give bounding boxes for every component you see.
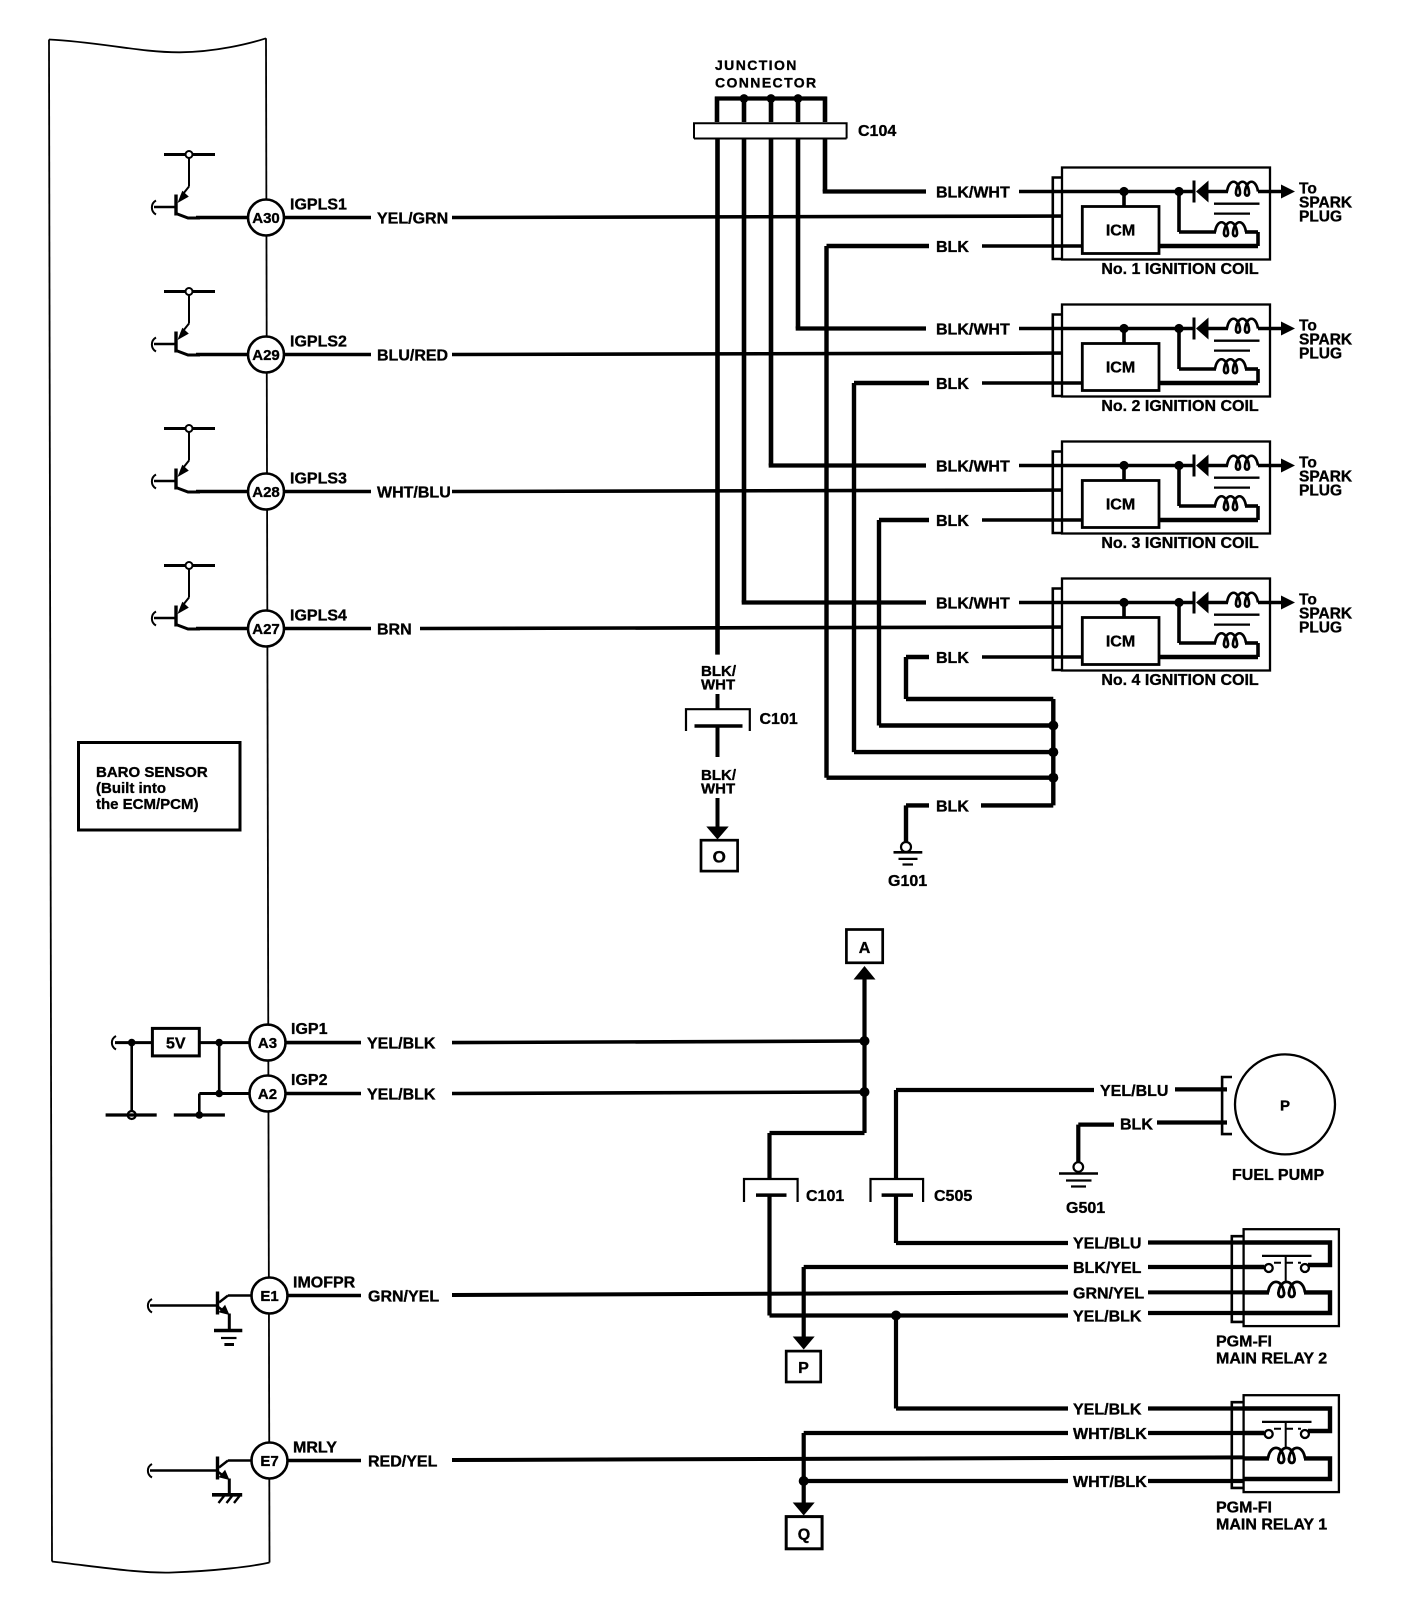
wire BLK No.3 coil to ground bus <box>879 520 1053 726</box>
svg-text:FUEL PUMP: FUEL PUMP <box>1232 1167 1324 1184</box>
wire YEL/BLU below C505 to relay 2 <box>896 1194 1068 1243</box>
svg-text:A3: A3 <box>258 1035 277 1052</box>
svg-text:C101: C101 <box>806 1188 844 1205</box>
connector C101 (engine harness) <box>686 709 750 731</box>
svg-text:YEL/BLU: YEL/BLU <box>1100 1083 1168 1100</box>
diode D2 (in No.2 coil) <box>1194 318 1209 340</box>
wire GRN/YEL E1 to relay 2 <box>452 1293 1068 1295</box>
relay 2 contact feed wire (pin 1) <box>1244 1243 1330 1266</box>
wire WHT/BLK to page reference Q <box>802 1481 806 1504</box>
svg-text:A29: A29 <box>252 347 280 364</box>
wire BLK right segment into ICM (No.4 coil) <box>982 655 1082 659</box>
No. 4 ignition coil case <box>1062 579 1270 671</box>
svg-text:WHT/BLK: WHT/BLK <box>1073 1474 1147 1491</box>
pin A27 <box>248 611 284 647</box>
wire BLU/RED (A29 to No.2 ignition coil), right segment <box>452 353 1082 355</box>
label FUEL PUMP <box>1232 1167 1324 1184</box>
label WHT/BLK (relay 1 pin 2) <box>1073 1426 1147 1443</box>
label BLK/WHT (No.1 coil feed) <box>936 185 1010 202</box>
wire G501 down lead <box>1076 1125 1080 1163</box>
junction bus junction dots <box>740 94 803 103</box>
svg-text:A30: A30 <box>252 210 280 227</box>
wire BLK/WHT vertical 3 (C104 to No.3 coil) <box>769 139 926 466</box>
wire YEL/BLU fuel pump feed from C505 node <box>896 1090 1094 1180</box>
svg-text:C101: C101 <box>760 711 798 728</box>
label GRN/YEL (at E1) <box>368 1289 439 1306</box>
wire A30 transistor to pin <box>196 216 249 220</box>
arrow into Q <box>793 1503 815 1516</box>
wire GRN/YEL left segment <box>288 1294 362 1298</box>
transistor Q4 (IGPLS4 driver) <box>152 562 215 629</box>
pin A29 <box>248 337 284 373</box>
transistor Q1 (IGPLS1 driver) <box>152 151 215 218</box>
wire YEL/BLU into relay 2 pin 1 <box>1148 1240 1244 1244</box>
svg-text:YEL/BLK: YEL/BLK <box>1073 1309 1142 1326</box>
relay 2 coil <box>1244 1282 1305 1297</box>
relay 1 coil <box>1244 1448 1305 1463</box>
wire BLK right segment into ICM (No.2 coil) <box>982 381 1082 385</box>
svg-text:GRN/YEL: GRN/YEL <box>1073 1286 1144 1303</box>
label C101 (lower) <box>806 1188 844 1205</box>
svg-text:BLK: BLK <box>1120 1117 1153 1134</box>
label IGP2 <box>291 1072 328 1089</box>
page reference A box <box>846 930 882 963</box>
page reference P box <box>786 1351 821 1382</box>
primary winding L1 (No.1 coil) <box>1227 182 1258 196</box>
transistor Q2 (IGPLS2 driver) <box>152 288 215 355</box>
wire BLK/WHT into C101 <box>716 694 720 710</box>
svg-text:IMOFPR: IMOFPR <box>293 1275 356 1292</box>
svg-text:RED/YEL: RED/YEL <box>368 1454 438 1471</box>
junction dot YEL/BLK branch <box>891 1311 901 1321</box>
svg-text:No. 4 IGNITION COIL: No. 4 IGNITION COIL <box>1101 672 1259 689</box>
primary winding L1 (No.4 coil) <box>1227 593 1258 607</box>
label MRLY <box>293 1440 337 1457</box>
svg-text:G501: G501 <box>1066 1200 1105 1217</box>
label BLK/WHT (above C101) <box>701 663 737 694</box>
label To SPARK PLUG (No.1) <box>1299 181 1353 226</box>
transformer core (No.3 coil) <box>1214 478 1260 488</box>
svg-text:No. 1 IGNITION COIL: No. 1 IGNITION COIL <box>1101 261 1259 278</box>
svg-text:WHT: WHT <box>701 677 735 694</box>
svg-text:BLK: BLK <box>936 650 969 667</box>
diode D1 (in No.1 coil) <box>1194 181 1209 203</box>
wire A28 transistor to pin <box>196 490 249 494</box>
svg-text:BARO SENSOR: BARO SENSOR <box>96 764 208 781</box>
wire diode to primary winding (No.3 coil) <box>1207 464 1228 468</box>
label BLK (to G101) <box>936 799 969 816</box>
connector C104 body <box>694 123 847 138</box>
label JUNCTION CONNECTOR <box>715 57 818 91</box>
pin E1 <box>252 1278 288 1314</box>
svg-text:BRN: BRN <box>377 622 412 639</box>
diode D3 (in No.3 coil) <box>1194 455 1209 477</box>
svg-text:Q: Q <box>798 1527 810 1544</box>
wire BLK/YEL into relay 2 pin 2 <box>1148 1265 1244 1269</box>
svg-text:IGPLS2: IGPLS2 <box>290 334 347 351</box>
arrow into A <box>854 966 876 980</box>
No. 3 ignition coil case <box>1062 442 1270 534</box>
pin A28 <box>248 474 284 510</box>
svg-text:PLUG: PLUG <box>1299 483 1342 500</box>
svg-text:YEL/GRN: YEL/GRN <box>377 211 448 228</box>
wire BLK/WHT below C101 <box>716 726 720 757</box>
label To SPARK PLUG (No.3) <box>1299 455 1353 500</box>
wire BLK No.4 coil to ground bus <box>906 657 1053 699</box>
wire YEL/BLK branch to relay 1 <box>896 1316 1068 1409</box>
label No. 1 IGNITION COIL <box>1101 261 1259 278</box>
svg-text:PGM-FI: PGM-FI <box>1216 1500 1272 1517</box>
relay 2 coil return (pin 4) <box>1244 1292 1330 1313</box>
arrow to spark plug (No.4 coil) <box>1281 596 1295 610</box>
No. 2 ignition coil connector bracket <box>1053 315 1062 397</box>
wire YEL/GRN (A30 to No.1 ignition coil), left segment <box>284 216 371 220</box>
svg-text:P: P <box>1280 1098 1290 1115</box>
wire BLK ground bus to G101, left segment <box>906 805 929 842</box>
label To SPARK PLUG (No.4) <box>1299 592 1353 637</box>
wire WHT/BLU (A28 to No.3 ignition coil), left segment <box>284 490 371 494</box>
svg-text:YEL/BLK: YEL/BLK <box>1073 1402 1142 1419</box>
PGM-FI main relay 2 case <box>1244 1229 1339 1326</box>
wire BLK/WHT vertical 1 (C104 to C101) <box>715 139 720 655</box>
svg-text:BLK: BLK <box>936 513 969 530</box>
ground (E7 transistor emitter, chassis) <box>212 1495 242 1503</box>
label YEL/BLK (IGP1) <box>367 1036 436 1053</box>
wire BLK/WHT into No.1 coil with junction dots <box>1019 187 1194 196</box>
wire YEL/BLK below C101 to relay 2 <box>770 1194 1069 1316</box>
label PGM-FI MAIN RELAY 2 <box>1216 1334 1327 1368</box>
wire GRN/YEL into relay 2 pin 3 <box>1148 1290 1244 1294</box>
label GRN/YEL (relay 2) <box>1073 1286 1144 1303</box>
relay 1 contact feed wire (pin 1) <box>1244 1409 1330 1432</box>
label IGPLS1 <box>290 197 347 214</box>
regulator 5V box <box>152 1028 199 1056</box>
label BLK (No.2 coil ground wire) <box>936 376 969 393</box>
label WHT/BLK (relay 1 pin 4) <box>1073 1474 1147 1491</box>
PGM-FI main relay 2 connector bracket <box>1232 1236 1244 1322</box>
wire BLK No.1 coil to ground bus <box>827 246 1054 778</box>
wire secondary return to ICM (No.3 coil) <box>1159 518 1258 523</box>
label G101 <box>888 873 927 890</box>
wire YEL/GRN (A30 to No.1 ignition coil), right segment <box>452 216 1082 218</box>
wire BLK/WHT vertical 5 (C104 to No.1 coil) <box>823 139 926 192</box>
label IMOFPR <box>293 1275 356 1292</box>
wire BRN (A27 to No.4 ignition coil), right segment <box>420 627 1082 629</box>
svg-text:P: P <box>798 1360 809 1377</box>
wire BLU/RED (A29 to No.2 ignition coil), left segment <box>284 353 371 357</box>
svg-text:O: O <box>713 848 726 867</box>
wire secondary return to ICM (No.2 coil) <box>1159 381 1258 386</box>
label No. 3 IGNITION COIL <box>1101 535 1259 552</box>
wire YEL/BLU into fuel pump connector <box>1175 1087 1227 1091</box>
svg-text:IGPLS3: IGPLS3 <box>290 471 347 488</box>
wire IGP feed to C101 <box>770 1133 865 1180</box>
wire secondary return to ICM (No.1 coil) <box>1159 244 1258 249</box>
label No. 2 IGNITION COIL <box>1101 398 1259 415</box>
connector C101 (lower, main harness) <box>744 1179 798 1202</box>
terminal open circle <box>128 1111 136 1119</box>
fuel pump motor P <box>1235 1054 1335 1154</box>
wire branch down to stub <box>130 1043 133 1112</box>
label WHT/BLU <box>377 485 451 502</box>
wire IGP feed vertical to A <box>862 978 866 1133</box>
svg-text:E1: E1 <box>260 1288 278 1305</box>
ICM U1 (igniter, No.1 coil) <box>1082 207 1159 254</box>
relay 1 pin 2 wire <box>1244 1431 1265 1435</box>
wire YEL/BLK IGP2 right segment <box>452 1092 865 1094</box>
wire BLK/WHT into No.3 coil with junction dots <box>1019 461 1194 470</box>
junction dot on 5V input <box>128 1039 136 1047</box>
svg-text:IGP1: IGP1 <box>291 1021 328 1038</box>
label YEL/BLU (relay 2) <box>1073 1236 1141 1253</box>
svg-text:MRLY: MRLY <box>293 1440 337 1457</box>
wire ICM power (top wire to ICM, No.4 coil) <box>1122 603 1126 618</box>
BARO sensor box (built into ECM/PCM) <box>79 743 241 831</box>
pin E7 <box>252 1443 288 1479</box>
svg-text:IGPLS1: IGPLS1 <box>290 197 347 214</box>
svg-text:JUNCTION: JUNCTION <box>715 57 798 73</box>
junction dot IGP1 at feed <box>860 1036 870 1046</box>
wire YEL/BLK IGP2 left segment <box>286 1092 362 1096</box>
junction connector pin stubs <box>717 97 825 123</box>
transformer core (No.4 coil) <box>1214 615 1260 625</box>
wire 5V box to pin A3 <box>199 1041 250 1044</box>
arrow into P <box>793 1337 815 1350</box>
wire RED/YEL left segment <box>288 1459 362 1463</box>
arrow into O <box>706 827 728 840</box>
label G501 <box>1066 1200 1105 1217</box>
label BLK (No.4 coil ground wire) <box>936 650 969 667</box>
label YEL/GRN <box>377 211 448 228</box>
svg-text:BLK/YEL: BLK/YEL <box>1073 1260 1142 1277</box>
svg-text:C505: C505 <box>934 1188 972 1205</box>
primary winding L1 (No.2 coil) <box>1227 319 1258 333</box>
label BLK/WHT (No.2 coil feed) <box>936 322 1010 339</box>
label YEL/BLK (relay 1) <box>1073 1402 1142 1419</box>
wire 5V supply input with torn end <box>112 1036 153 1050</box>
svg-text:G101: G101 <box>888 873 927 890</box>
label YEL/BLK (relay 2 coil) <box>1073 1309 1142 1326</box>
label To SPARK PLUG (No.2) <box>1299 318 1353 363</box>
wire BLK/WHT to page reference O <box>716 798 720 828</box>
diode D4 (in No.4 coil) <box>1194 592 1209 614</box>
svg-text:BLK: BLK <box>936 239 969 256</box>
No. 3 ignition coil connector bracket <box>1053 452 1062 534</box>
secondary winding L2 (No.3 coil) <box>1179 466 1258 521</box>
svg-text:WHT: WHT <box>701 781 735 798</box>
svg-text:MAIN RELAY 1: MAIN RELAY 1 <box>1216 1517 1327 1534</box>
wire diode to primary winding (No.4 coil) <box>1207 601 1228 605</box>
wire BLK/WHT into No.2 coil with junction dots <box>1019 324 1194 333</box>
wire BLK ground bus to G101, right segment <box>981 803 1053 807</box>
svg-text:PLUG: PLUG <box>1299 620 1342 637</box>
secondary winding L2 (No.4 coil) <box>1179 603 1258 658</box>
secondary winding L2 (No.2 coil) <box>1179 329 1258 384</box>
wire YEL/BLK into relay 1 pin 1 <box>1148 1406 1246 1410</box>
wire primary to spark-plug terminal (No.4 coil) <box>1258 601 1282 605</box>
label IGP1 <box>291 1021 328 1038</box>
wire A29 transistor to pin <box>196 353 249 357</box>
wire BLK/WHT vertical 4 (C104 to No.2 coil) <box>796 139 926 329</box>
ICM U4 (igniter, No.4 coil) <box>1082 618 1159 665</box>
ECM/PCM module outline (torn strip) <box>49 38 270 1572</box>
label No. 4 IGNITION COIL <box>1101 672 1259 689</box>
wire BLK/YEL relay 2 pin 2 to page reference P <box>804 1267 1068 1337</box>
wire ICM power (top wire to ICM, No.3 coil) <box>1122 466 1126 481</box>
wire YEL/BLK into relay 2 pin 4 <box>1148 1311 1244 1315</box>
wire BLK right segment into ICM (No.3 coil) <box>982 518 1082 522</box>
wire ICM power (top wire to ICM, No.1 coil) <box>1122 192 1126 207</box>
ground (E1 transistor emitter) <box>214 1331 242 1345</box>
wire BLK/WHT vertical 2 (C104 to No.4 coil) <box>742 139 926 603</box>
transistor Q3 (IGPLS3 driver) <box>152 425 215 492</box>
junction connector bus bar <box>715 96 827 100</box>
svg-text:WHT/BLU: WHT/BLU <box>377 485 451 502</box>
label BLK (No.1 coil ground wire) <box>936 239 969 256</box>
svg-text:BLK: BLK <box>936 376 969 393</box>
ground G501 <box>1059 1162 1098 1186</box>
label IGPLS4 <box>290 608 347 625</box>
svg-text:C104: C104 <box>858 123 896 140</box>
pin A30 <box>248 200 284 236</box>
svg-text:PGM-FI: PGM-FI <box>1216 1334 1272 1351</box>
secondary winding L2 (No.1 coil) <box>1179 192 1258 247</box>
junction dot WHT/BLK <box>799 1476 809 1486</box>
svg-text:IGPLS4: IGPLS4 <box>290 608 347 625</box>
svg-text:BLK/WHT: BLK/WHT <box>936 322 1010 339</box>
wire corner to A2 <box>199 1094 250 1116</box>
wire diode to primary winding (No.1 coil) <box>1207 190 1228 194</box>
wire RED/YEL E7 to relay 1 <box>452 1457 1246 1460</box>
ICM U3 (igniter, No.3 coil) <box>1082 481 1159 528</box>
svg-text:E7: E7 <box>260 1453 278 1470</box>
svg-text:(Built into: (Built into <box>96 780 166 797</box>
svg-text:No. 2 IGNITION COIL: No. 2 IGNITION COIL <box>1101 398 1259 415</box>
stub wire right <box>174 1113 225 1116</box>
svg-text:ICM: ICM <box>1106 360 1135 377</box>
wire YEL/BLK IGP1 right segment <box>452 1041 865 1043</box>
No. 1 ignition coil connector bracket <box>1053 178 1062 260</box>
arrow to spark plug (No.3 coil) <box>1281 459 1295 473</box>
svg-text:ICM: ICM <box>1106 497 1135 514</box>
arrow to spark plug (No.2 coil) <box>1281 322 1295 336</box>
relay 2 pin 2 wire <box>1244 1265 1265 1269</box>
wire WHT/BLU (A28 to No.3 ignition coil), right segment <box>452 490 1082 492</box>
svg-text:WHT/BLK: WHT/BLK <box>1073 1426 1147 1443</box>
wire BLK into fuel pump connector <box>1157 1120 1227 1124</box>
svg-text:ICM: ICM <box>1106 634 1135 651</box>
svg-text:the ECM/PCM): the ECM/PCM) <box>96 796 199 813</box>
wire BLK No.2 coil to ground bus <box>854 383 1053 752</box>
primary winding L1 (No.3 coil) <box>1227 456 1258 470</box>
wire primary to spark-plug terminal (No.1 coil) <box>1258 190 1282 194</box>
svg-text:MAIN RELAY 2: MAIN RELAY 2 <box>1216 1351 1327 1368</box>
label BLK/WHT (No.4 coil feed) <box>936 596 1010 613</box>
wire WHT/BLK into relay 1 pin 2 <box>1148 1431 1246 1435</box>
wire primary to spark-plug terminal (No.2 coil) <box>1258 327 1282 331</box>
svg-text:PLUG: PLUG <box>1299 346 1342 363</box>
ground G101 <box>894 842 923 865</box>
relay 1 contact (switch) <box>1262 1422 1312 1449</box>
No. 2 ignition coil case <box>1062 305 1270 397</box>
label PGM-FI MAIN RELAY 1 <box>1216 1500 1327 1534</box>
page reference O box <box>701 840 738 871</box>
label YEL/BLK (IGP2) <box>367 1087 436 1104</box>
label BRN <box>377 622 412 639</box>
PGM-FI main relay 1 case <box>1244 1395 1339 1492</box>
label IGPLS2 <box>290 334 347 351</box>
fuel pump connector bracket <box>1222 1077 1232 1134</box>
pin A2 <box>250 1076 286 1112</box>
label IGPLS3 <box>290 471 347 488</box>
arrow to spark plug (No.1 coil) <box>1281 185 1295 199</box>
wire WHT/BLK relay 1 pin 4 <box>804 1479 1068 1483</box>
wire WHT/BLK relay 1 pin 2 <box>804 1433 1068 1481</box>
junction dot A3 feed <box>215 1039 223 1047</box>
wire branch A3 to A2 <box>218 1043 221 1094</box>
label BLK (No.3 coil ground wire) <box>936 513 969 530</box>
transformer core (No.1 coil) <box>1214 204 1260 214</box>
No. 1 ignition coil case <box>1062 168 1270 260</box>
transformer core (No.2 coil) <box>1214 341 1260 351</box>
label BLK (fuel pump ground) <box>1120 1117 1153 1134</box>
label BLK/WHT (below C101) <box>701 767 737 798</box>
page reference Q box <box>786 1517 822 1549</box>
wire YEL/BLK IGP1 left segment <box>286 1041 362 1045</box>
wire secondary return to ICM (No.4 coil) <box>1159 655 1258 660</box>
PGM-FI main relay 1 connector bracket <box>1232 1402 1244 1488</box>
svg-text:YEL/BLK: YEL/BLK <box>367 1087 436 1104</box>
wire WHT/BLK into relay 1 pin 4 <box>1148 1479 1246 1483</box>
svg-text:A27: A27 <box>252 621 280 638</box>
connector C505 <box>871 1179 924 1202</box>
label BLK/YEL <box>1073 1260 1142 1277</box>
svg-text:PLUG: PLUG <box>1299 209 1342 226</box>
svg-text:BLU/RED: BLU/RED <box>377 348 448 365</box>
junction dot IGP2 at feed <box>860 1087 870 1097</box>
label BLK/WHT (No.3 coil feed) <box>936 459 1010 476</box>
svg-text:ICM: ICM <box>1106 223 1135 240</box>
label BLU/RED <box>377 348 448 365</box>
relay 1 coil return (pin 4) <box>1244 1458 1330 1479</box>
label C101 <box>760 711 798 728</box>
junction dot on A2 wire <box>215 1090 223 1098</box>
wire primary to spark-plug terminal (No.3 coil) <box>1258 464 1282 468</box>
svg-text:A: A <box>859 940 871 957</box>
wire ICM power (top wire to ICM, No.2 coil) <box>1122 329 1126 344</box>
svg-text:IGP2: IGP2 <box>291 1072 328 1089</box>
svg-text:BLK/WHT: BLK/WHT <box>936 185 1010 202</box>
svg-text:A28: A28 <box>252 484 280 501</box>
pin A3 <box>250 1025 286 1061</box>
label C505 <box>934 1188 972 1205</box>
svg-text:YEL/BLK: YEL/BLK <box>367 1036 436 1053</box>
label RED/YEL (at E7) <box>368 1454 438 1471</box>
ground bus junction dots <box>1048 721 1058 783</box>
No. 4 ignition coil connector bracket <box>1053 589 1062 671</box>
svg-text:CONNECTOR: CONNECTOR <box>715 75 818 91</box>
stub wire left <box>106 1113 157 1116</box>
label C104 <box>858 123 896 140</box>
wire A27 transistor to pin <box>196 627 249 631</box>
ground bus vertical <box>1051 699 1055 805</box>
transistor Q5 (IMOFPR driver) <box>148 1292 252 1331</box>
svg-text:BLK: BLK <box>936 799 969 816</box>
wire BRN (A27 to No.4 ignition coil), left segment <box>284 627 371 631</box>
svg-text:BLK/WHT: BLK/WHT <box>936 596 1010 613</box>
svg-text:No. 3 IGNITION COIL: No. 3 IGNITION COIL <box>1101 535 1259 552</box>
svg-text:5V: 5V <box>166 1036 186 1053</box>
